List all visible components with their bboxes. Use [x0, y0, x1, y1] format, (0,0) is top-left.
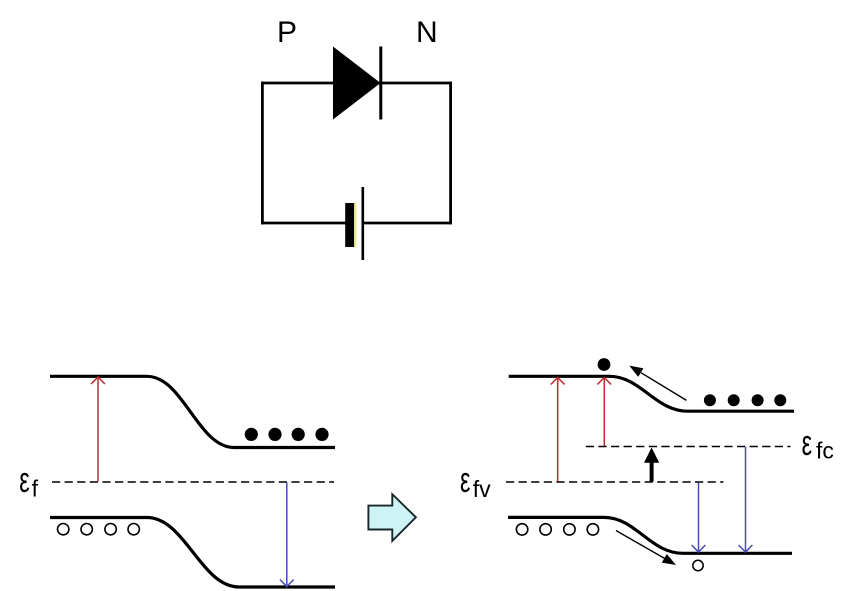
- svg-text:N: N: [416, 16, 438, 49]
- electron dots left diagram: [245, 428, 329, 441]
- label epsilon-f: [19, 461, 38, 501]
- quasi fermi splitting thick arrow: [644, 448, 659, 482]
- blue recombination arrow 1 right diagram: [692, 483, 706, 553]
- quasi fermi level efv dashed line: [506, 481, 724, 483]
- conduction band right diagram: [509, 376, 794, 411]
- red pump arrow 2 right diagram: [597, 378, 611, 447]
- label epsilon-fc: [802, 424, 834, 463]
- svg-text:ε: ε: [460, 461, 470, 500]
- svg-text:ε: ε: [19, 461, 29, 500]
- svg-text:fv: fv: [473, 476, 491, 502]
- electron dots right diagram: [704, 394, 786, 406]
- blue recombination arrow 2 right diagram: [739, 447, 753, 552]
- hole drift arrow right diagram: [616, 531, 676, 566]
- svg-text:f: f: [32, 476, 39, 502]
- valence band left diagram: [50, 518, 335, 588]
- battery V1 negative plate: [345, 203, 354, 247]
- drifted hole circle: [693, 560, 703, 570]
- hole circles left diagram: [58, 524, 140, 535]
- wire bottom-right: [362, 222, 452, 225]
- hole circles right diagram: [516, 524, 598, 535]
- conduction band left diagram: [50, 376, 335, 447]
- wire left: [261, 82, 264, 225]
- wire top: [261, 82, 452, 85]
- svg-text:ε: ε: [802, 424, 812, 463]
- diode D1 cathode bar: [379, 47, 382, 120]
- battery V1 positive plate: [361, 187, 364, 260]
- valence band right diagram: [508, 517, 792, 553]
- fermi level dashed line: [52, 481, 334, 483]
- svg-text:fc: fc: [816, 438, 834, 464]
- wire bottom-left: [261, 222, 346, 225]
- wire right: [449, 82, 452, 225]
- electron drift arrow right diagram: [629, 366, 686, 401]
- diode D1 anode triangle: [333, 47, 381, 120]
- label epsilon-fv: [460, 461, 491, 502]
- red absorption arrow left diagram: [91, 377, 105, 482]
- battery V1 plate highlight: [354, 203, 356, 247]
- svg-text:P: P: [277, 16, 297, 49]
- excited electron dot: [598, 358, 611, 371]
- quasi fermi level efc dashed line: [586, 446, 791, 448]
- block arrow between diagrams: [368, 494, 416, 541]
- red pump arrow 1 right diagram: [551, 378, 565, 482]
- blue emission arrow left diagram: [280, 483, 294, 587]
